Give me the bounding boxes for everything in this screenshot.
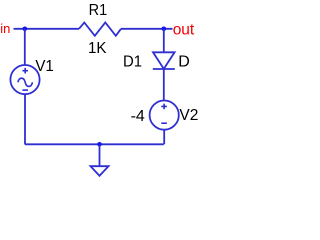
diode D1 triangle xyxy=(153,52,175,69)
junction node dot at out xyxy=(162,27,167,32)
V2 minus sign xyxy=(161,122,167,124)
svg-text:in: in xyxy=(0,21,10,36)
junction node dot at in xyxy=(23,27,28,32)
V1 plus sign xyxy=(22,68,28,74)
diode D1 cathode bar xyxy=(153,68,175,70)
V2 plus sign xyxy=(161,104,167,110)
ground stem wire xyxy=(99,144,101,166)
svg-text:D1: D1 xyxy=(123,54,142,71)
wire left vertical (in node down to V1) xyxy=(24,29,26,65)
svg-text:R1: R1 xyxy=(89,2,108,19)
wire top-left (in node to resistor) xyxy=(14,28,80,30)
ground junction dot xyxy=(97,142,102,147)
wire out node down to diode xyxy=(163,29,165,53)
bottom rail wire xyxy=(25,143,164,145)
svg-text:D: D xyxy=(178,54,190,71)
V1 sine symbol xyxy=(18,78,33,86)
wire V2 bottom to rail xyxy=(163,130,165,145)
wire diode to V2 xyxy=(163,69,165,101)
wire top-right (resistor to out node) xyxy=(121,28,173,30)
svg-text:1K: 1K xyxy=(88,40,107,57)
svg-text:out: out xyxy=(173,22,195,39)
wire V1 bottom to rail xyxy=(24,94,26,144)
resistor R1 xyxy=(79,23,121,36)
svg-text:-4: -4 xyxy=(131,108,145,125)
svg-text:V1: V1 xyxy=(35,58,54,75)
ground symbol triangle xyxy=(91,166,109,176)
voltage source V1 circle xyxy=(10,65,39,94)
voltage source V2 circle xyxy=(150,101,179,130)
svg-text:V2: V2 xyxy=(179,107,198,124)
V1 minus sign xyxy=(22,89,28,91)
